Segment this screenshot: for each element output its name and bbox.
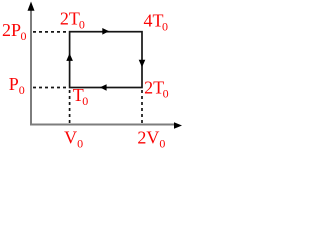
dashed line 2P0 level (33, 31, 69, 33)
arrow right (top side, isobaric expansion) (102, 28, 109, 35)
svg-text:2P0: 2P0 (2, 20, 27, 43)
cycle rectangle (70, 32, 142, 88)
arrow up (left side, isochoric heating) (66, 53, 73, 61)
dashed line P0 level (33, 87, 69, 89)
svg-text:T0: T0 (73, 85, 89, 108)
dashed line 2V0 (141, 90, 143, 123)
svg-text:2T0: 2T0 (144, 77, 169, 100)
svg-text:2T0: 2T0 (60, 8, 85, 31)
svg-text:4T0: 4T0 (144, 10, 169, 33)
dashed line V0 (69, 90, 71, 123)
svg-text:2V0: 2V0 (137, 127, 165, 150)
arrow down (right side, isochoric cooling) (139, 60, 146, 68)
svg-text:V0: V0 (64, 127, 83, 150)
P axis (vertical) (28, 2, 35, 126)
V axis (horizontal) (30, 122, 182, 129)
svg-text:P0: P0 (9, 74, 25, 97)
arrow left (bottom side, isobaric compression) (100, 84, 107, 91)
